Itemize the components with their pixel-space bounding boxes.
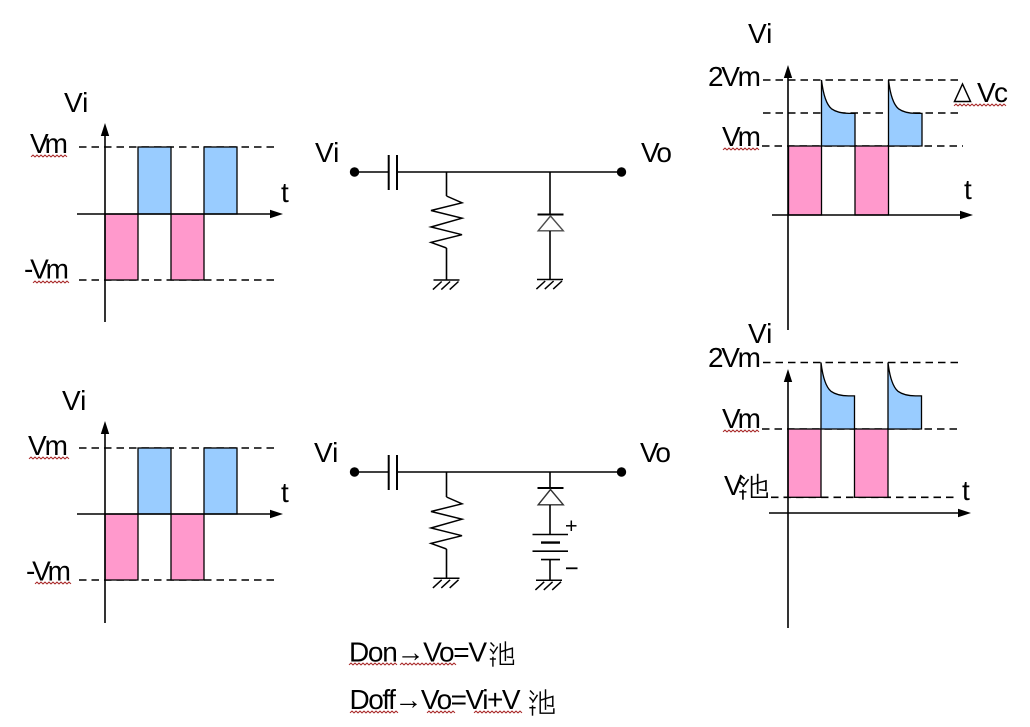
waveform pink pulse 1 xyxy=(105,514,138,580)
svg-text:t: t xyxy=(281,477,289,508)
waveform blue pulse 2 xyxy=(204,147,237,214)
svg-text:Vm: Vm xyxy=(30,128,68,159)
label delta Vc xyxy=(955,84,971,102)
y axis xyxy=(787,381,789,628)
node Vm dashed level line xyxy=(79,447,278,449)
wire diode to battery xyxy=(549,505,551,534)
battery plus sign xyxy=(566,521,577,532)
svg-text:-Vm: -Vm xyxy=(24,254,69,285)
svg-text:Vi: Vi xyxy=(62,385,86,416)
waveform pink pulse 2 xyxy=(855,429,889,497)
node Vi terminal dot xyxy=(350,167,359,176)
waveform pink pulse 2 xyxy=(855,146,889,215)
wire diode to ground xyxy=(549,231,551,279)
svg-text:V: V xyxy=(724,470,743,501)
wire junction to diode xyxy=(549,172,551,215)
wire capacitor to output node xyxy=(398,171,622,173)
svg-text:Vo: Vo xyxy=(640,437,671,468)
svg-text:2Vm: 2Vm xyxy=(708,61,761,92)
wire junction to diode xyxy=(549,472,551,488)
waveform pink pulse 2 xyxy=(171,514,204,580)
resistor R xyxy=(431,497,462,549)
diode D triangle xyxy=(538,490,563,505)
y axis xyxy=(104,135,106,322)
svg-text:Doff→Vo=Vi+V: Doff→Vo=Vi+V xyxy=(350,684,521,715)
capacitor C xyxy=(389,455,397,490)
x axis (t) xyxy=(772,214,962,216)
waveform blue pulse 1 xyxy=(138,448,171,514)
node 2Vm-dVc dashed level line xyxy=(763,112,962,114)
wire input to capacitor xyxy=(354,471,388,473)
node -Vm dashed level line xyxy=(79,579,278,581)
ground below diode xyxy=(536,280,563,290)
svg-text:t: t xyxy=(962,475,970,506)
waveform blue decay pulse 1 xyxy=(822,80,856,146)
node Vm dashed level line xyxy=(762,145,963,147)
waveform pink pulse 1 xyxy=(105,214,138,280)
wire junction to resistor xyxy=(446,172,448,196)
x axis (t) xyxy=(769,512,960,514)
waveform blue pulse 1 xyxy=(138,147,171,214)
svg-text:-Vm: -Vm xyxy=(26,556,71,587)
waveform pink pulse 2 xyxy=(171,214,204,280)
svg-text:t: t xyxy=(281,177,289,208)
waveform pink pulse 1 xyxy=(788,429,821,497)
node Vi terminal dot xyxy=(350,467,359,476)
ground below resistor xyxy=(433,280,460,290)
wire junction to resistor xyxy=(446,472,448,497)
node Vm dashed level line xyxy=(762,428,962,430)
svg-text:Vi: Vi xyxy=(314,437,338,468)
x axis (t) xyxy=(77,213,272,215)
node Vm dashed level line xyxy=(79,146,278,148)
ground below resistor xyxy=(433,578,460,588)
waveform pink pulse 1 xyxy=(789,146,822,215)
y axis xyxy=(787,77,789,330)
diode D triangle xyxy=(538,216,563,231)
node Vo terminal dot xyxy=(617,467,626,476)
svg-text:Vm: Vm xyxy=(722,403,761,434)
diode D cathode bar xyxy=(538,487,564,489)
resistor R xyxy=(431,196,462,248)
y axis xyxy=(104,433,106,623)
svg-text:Vi: Vi xyxy=(748,18,772,49)
ground below battery xyxy=(535,580,562,590)
node Vo terminal dot xyxy=(617,167,626,176)
svg-text:Vc: Vc xyxy=(977,77,1008,108)
wire capacitor to output node xyxy=(398,471,622,473)
node V-chi dashed level line xyxy=(771,496,957,498)
svg-text:2Vm: 2Vm xyxy=(708,342,761,373)
wire input to capacitor xyxy=(354,171,388,173)
battery minus sign xyxy=(566,567,578,569)
waveform blue pulse 2 xyxy=(204,448,237,514)
wire resistor to ground xyxy=(446,248,448,280)
svg-text:Vm: Vm xyxy=(722,121,761,152)
capacitor C xyxy=(389,155,397,190)
node 2Vm dashed level line xyxy=(763,362,962,364)
svg-text:Vo: Vo xyxy=(641,137,672,168)
node 2Vm dashed level line xyxy=(763,79,962,81)
waveform blue decay pulse 1 xyxy=(821,363,855,430)
diode D cathode bar xyxy=(538,214,564,216)
svg-text:t: t xyxy=(964,174,972,205)
x axis (t) xyxy=(77,513,272,515)
battery V (cell plates) xyxy=(533,535,569,560)
svg-text:Vi: Vi xyxy=(64,87,88,118)
svg-text:Vi: Vi xyxy=(315,137,339,168)
svg-text:Vm: Vm xyxy=(28,430,68,461)
node -Vm dashed level line xyxy=(79,279,278,281)
wire resistor to ground xyxy=(446,549,448,578)
wire battery to ground xyxy=(549,560,551,580)
waveform blue decay pulse 2 xyxy=(889,80,923,146)
waveform blue decay pulse 2 xyxy=(888,363,922,430)
